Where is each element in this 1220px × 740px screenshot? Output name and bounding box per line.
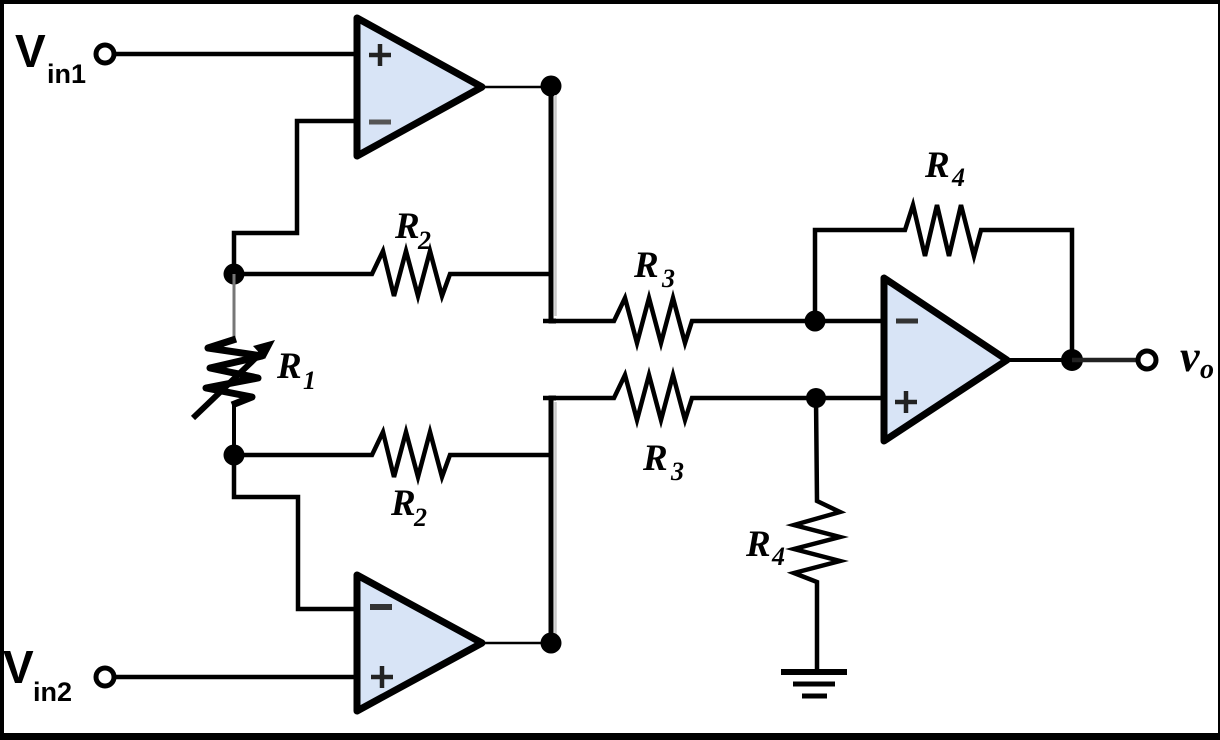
wire Vin1 to U1 + input bbox=[114, 52, 356, 57]
wire node C down to R3 (top) bbox=[551, 86, 556, 321]
label R3 (bottom) bbox=[642, 438, 684, 486]
svg-text:1: 1 bbox=[303, 366, 316, 395]
wire node B to U2 - input bbox=[234, 455, 356, 609]
label R4 (to ground) bbox=[745, 524, 785, 571]
wire U3 output bbox=[1007, 358, 1072, 362]
svg-text:R: R bbox=[633, 245, 659, 286]
label vo bbox=[1180, 332, 1214, 385]
svg-text:in2: in2 bbox=[33, 677, 72, 707]
svg-text:R: R bbox=[642, 438, 668, 479]
svg-text:3: 3 bbox=[661, 264, 675, 293]
svg-text:R: R bbox=[394, 206, 420, 247]
svg-text:2: 2 bbox=[413, 503, 427, 532]
node A junction bbox=[224, 264, 245, 285]
ground bbox=[781, 672, 847, 696]
resistor R4 (to ground) bbox=[794, 398, 840, 669]
label R1 bbox=[276, 346, 316, 395]
svg-text:4: 4 bbox=[951, 163, 965, 192]
svg-text:3: 3 bbox=[670, 457, 684, 486]
terminal Vin1 bbox=[96, 45, 114, 63]
node B junction bbox=[224, 445, 245, 466]
svg-text:2: 2 bbox=[417, 226, 431, 255]
resistor R2 (top) bbox=[234, 251, 551, 296]
op-amp U2 bbox=[357, 575, 482, 711]
label R4 (feedback) bbox=[924, 145, 965, 192]
wire U2 output bbox=[482, 642, 551, 645]
resistor R3 (top) bbox=[543, 298, 883, 343]
svg-text:V: V bbox=[15, 25, 46, 77]
op-amp U1 bbox=[357, 18, 482, 156]
node C junction bbox=[541, 76, 562, 97]
svg-text:4: 4 bbox=[771, 542, 785, 571]
label Vin2 bbox=[3, 641, 72, 707]
resistor R4 (feedback) bbox=[815, 205, 1072, 360]
node E junction bbox=[1061, 349, 1083, 371]
terminal Vin2 bbox=[96, 668, 114, 686]
resistor R3 (bottom) bbox=[543, 375, 883, 420]
terminal vo bbox=[1138, 351, 1156, 369]
svg-text:R: R bbox=[390, 483, 416, 524]
svg-text:R: R bbox=[745, 524, 771, 565]
svg-text:o: o bbox=[1200, 354, 1214, 385]
wire node E to output terminal bbox=[1072, 358, 1138, 363]
svg-text:R: R bbox=[924, 145, 950, 186]
wire U1 output bbox=[482, 86, 551, 89]
resistor R2 (bottom) bbox=[234, 432, 551, 477]
op-amp U3 bbox=[884, 278, 1007, 441]
svg-text:V: V bbox=[3, 641, 34, 693]
svg-text:v: v bbox=[1180, 332, 1200, 381]
label R2 (bottom) bbox=[390, 483, 427, 532]
wire U1 - input to node A bbox=[234, 121, 356, 274]
label R2 (top) bbox=[394, 206, 431, 255]
label Vin1 bbox=[15, 25, 86, 89]
svg-text:in1: in1 bbox=[47, 59, 86, 89]
wire Vin2 to U2 + input bbox=[114, 675, 356, 680]
wire node F up to R3 (bottom) bbox=[551, 398, 556, 642]
label R3 (top) bbox=[633, 245, 675, 293]
wire bbox=[554, 95, 557, 316]
node D junction bbox=[805, 311, 826, 332]
svg-text:R: R bbox=[276, 346, 302, 387]
node G junction bbox=[806, 388, 826, 408]
resistor R1 (variable) bbox=[193, 274, 275, 455]
node F junction bbox=[541, 633, 562, 654]
